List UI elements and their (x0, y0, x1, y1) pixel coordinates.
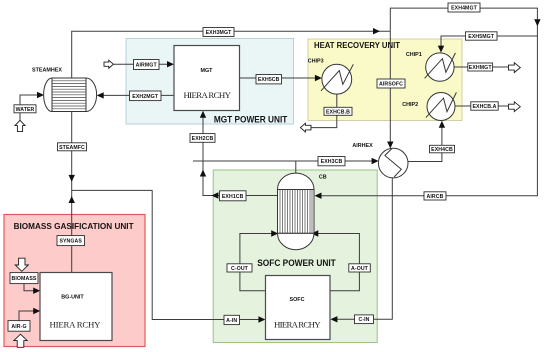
stream label AIR-G (8, 321, 30, 332)
stream label EXH4MGT (448, 3, 480, 12)
wire: CB top to EXH3CB line (295, 161, 297, 174)
stream label EXH5MGT (466, 32, 498, 40)
wire: EXH5CB line from MGT to CHP3 (240, 75, 322, 81)
svg-text:CHIP3: CHIP3 (308, 59, 324, 65)
wire: A-OUT line from SOFC to CB (311, 230, 359, 290)
heater CHP1 (406, 52, 456, 81)
wire: syngas branch to A-IN into SOFC (72, 190, 266, 322)
wire: EXH4MGT top line and right-side vertical down to AIRCB (315, 8, 541, 199)
stream label C-OUT (227, 264, 252, 272)
svg-text:EXH2MGT: EXH2MGT (132, 94, 159, 100)
svg-text:BIOMASS: BIOMASS (12, 276, 37, 282)
stream label A-OUT (349, 264, 371, 272)
stream label EXH5CB (256, 75, 282, 84)
svg-text:SOFC POWER UNIT: SOFC POWER UNIT (257, 258, 336, 268)
wire: EXH4CB line from AIRHEX to CHP2 (408, 121, 445, 162)
heater CHP3 (308, 59, 354, 94)
heat exchanger STEAMHEX (32, 67, 97, 111)
output arrow (hollow) EXHMGT (509, 63, 521, 73)
svg-text:MGT POWER UNIT: MGT POWER UNIT (214, 114, 288, 124)
wire: steam/syngas vertical line (STEAMFC, SYNGAS) (69, 112, 75, 273)
hierarchy block MGT (174, 46, 240, 111)
stream label BIOMASS (10, 273, 38, 284)
svg-text:BG-UNIT: BG-UNIT (61, 295, 84, 301)
wire: C-OUT line from SOFC to CB (240, 230, 278, 290)
wire: EXH1CB line from CB up through EXH2CB into MGT (200, 111, 278, 199)
stream label EXH3CB (318, 157, 345, 166)
wire: EXHCB.B outlet from CHP3 (311, 94, 337, 128)
svg-text:MGT: MGT (201, 68, 214, 74)
combustor CB (278, 173, 327, 250)
svg-text:A-OUT: A-OUT (351, 266, 369, 272)
wire: AIRMGT line into MGT (113, 61, 174, 67)
svg-text:AIR-G: AIR-G (11, 324, 26, 330)
stream label AIRSOFC (377, 79, 405, 88)
svg-text:WATER: WATER (16, 107, 35, 113)
wire: EXH3MGT line from STEAMHEX top to right (72, 28, 391, 78)
input arrow (hollow) below WATER (15, 120, 25, 131)
svg-text:STEAMHEX: STEAMHEX (32, 67, 62, 73)
unit box: HEAT RECOVERY UNIT (308, 39, 462, 121)
unit box: SOFC POWER UNIT (213, 170, 377, 343)
heater CHP2 (402, 92, 456, 120)
stream label C-IN (355, 315, 374, 324)
svg-text:EXH1CB: EXH1CB (222, 194, 244, 200)
svg-text:EXH5MGT: EXH5MGT (468, 34, 495, 40)
svg-text:EXH3CB: EXH3CB (321, 159, 343, 165)
output arrow (hollow) EXHCB.A (509, 102, 521, 112)
wire: AIRSOFC line down into AIRHEX (387, 31, 393, 148)
stream label EXH2MGT (130, 91, 162, 101)
svg-text:CHIP1: CHIP1 (406, 52, 422, 58)
stream label STEAMFC (58, 143, 87, 151)
svg-text:EXH5CB: EXH5CB (258, 77, 280, 83)
stream label EXHCB.B (324, 107, 352, 115)
svg-text:AIRCB: AIRCB (427, 194, 444, 200)
svg-text:EXH4CB: EXH4CB (431, 147, 453, 153)
svg-text:CHIP2: CHIP2 (402, 102, 418, 108)
stream label AIRCB (424, 192, 446, 200)
input arrow (hollow) AIRMGT (104, 60, 113, 68)
svg-text:AIRHEX: AIRHEX (352, 143, 373, 149)
svg-text:BIOMASS GASIFICATION UNIT: BIOMASS GASIFICATION UNIT (14, 221, 134, 231)
svg-text:EXH4MGT: EXH4MGT (451, 6, 478, 12)
wire: EXH2MGT line from MGT to STEAMHEX (97, 92, 174, 98)
stream label SYNGAS (57, 236, 85, 246)
heat exchanger AIRHEX (352, 143, 408, 178)
wire: AIR-G line into BG-UNIT (19, 308, 40, 321)
stream label EXHMGT (468, 63, 493, 71)
svg-text:SYNGAS: SYNGAS (59, 239, 82, 245)
svg-text:AIRMGT: AIRMGT (136, 63, 158, 69)
stream label WATER (14, 105, 36, 113)
wire: EXH3CB line into AIRHEX (193, 158, 379, 164)
wire: C-IN line from AIRHEX bottom into SOFC (330, 178, 392, 323)
output arrow (hollow) EXHCB.B (300, 123, 311, 132)
stream label AIRMGT (134, 60, 160, 70)
hierarchy block BG-UNIT (40, 273, 112, 341)
svg-text:EXHCB.A: EXHCB.A (472, 104, 496, 110)
wire: EXHMGT outlet from CHP1 (454, 66, 508, 68)
svg-text:EXH3MGT: EXH3MGT (206, 30, 233, 36)
input arrow (hollow) below AIR-G (14, 334, 27, 347)
unit box: MGT POWER UNIT (126, 39, 294, 125)
stream label A-IN (224, 315, 240, 324)
svg-text:SOFC: SOFC (290, 297, 305, 303)
stream label EXHCB.A (471, 102, 498, 110)
svg-text:CB: CB (319, 175, 327, 181)
hierarchy block SOFC (266, 276, 331, 340)
stream label EXH2CB (190, 134, 215, 143)
wire: EXH5MGT line into CHP1 (438, 36, 538, 53)
svg-text:STEAMFC: STEAMFC (59, 145, 85, 151)
svg-text:C-OUT: C-OUT (231, 266, 249, 272)
stream label EXH1CB (220, 191, 247, 201)
stream label EXH3MGT (203, 28, 234, 37)
svg-text:HIERA RCHY: HIERA RCHY (50, 319, 102, 329)
svg-text:HEAT RECOVERY UNIT: HEAT RECOVERY UNIT (314, 40, 401, 50)
wire: BIOMASS line into BG-UNIT (24, 284, 40, 294)
stream label EXH4CB (430, 145, 455, 153)
svg-text:HIERA RCHY: HIERA RCHY (183, 90, 231, 100)
svg-text:EXHMGT: EXHMGT (469, 65, 493, 71)
svg-text:C-IN: C-IN (358, 317, 369, 323)
svg-text:HIERA RCHY: HIERA RCHY (274, 319, 321, 329)
svg-text:AIRSOFC: AIRSOFC (379, 82, 403, 88)
svg-text:A-IN: A-IN (226, 318, 237, 324)
svg-text:EXHCB.B: EXHCB.B (326, 109, 350, 115)
wire: WATER inlet into STEAMHEX (20, 92, 44, 121)
svg-text:EXH2CB: EXH2CB (192, 136, 214, 142)
input arrow (hollow) above BIOMASS (15, 258, 28, 271)
unit box: BIOMASS GASIFICATION UNIT (4, 215, 145, 347)
wire: EXHCB.A outlet from CHP2 (455, 105, 509, 107)
